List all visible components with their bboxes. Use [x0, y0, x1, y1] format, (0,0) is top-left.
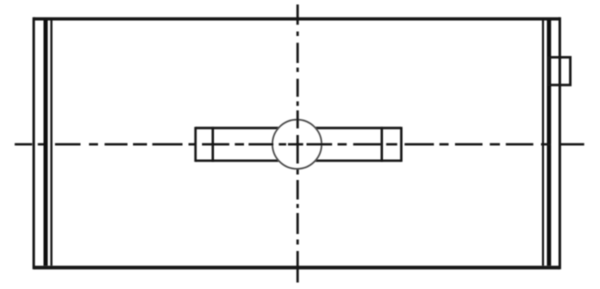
oil groove slot top line — [196, 127, 402, 129]
oil groove inner division line left — [212, 127, 214, 162]
oil hole circle — [272, 120, 321, 169]
left parting face thin line — [50, 20, 52, 266]
right parting face thin line — [542, 20, 544, 266]
oil groove slot left edge — [194, 127, 196, 162]
bearing shell outline (outer rectangle) — [34, 17, 560, 269]
oil groove inner division line right — [381, 127, 383, 162]
left parting face thick line — [43, 20, 47, 266]
locating lug tab — [548, 57, 570, 85]
vertical centerline — [296, 5, 298, 283]
oil groove slot bottom line — [196, 159, 402, 161]
oil groove slot right edge — [400, 127, 402, 162]
right parting face thick line — [547, 20, 551, 266]
horizontal centerline — [15, 143, 585, 145]
